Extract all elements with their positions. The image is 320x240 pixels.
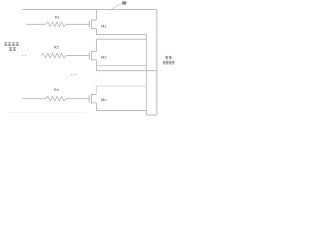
- svg-text:Mn: Mn: [101, 97, 107, 102]
- transistor M2: [89, 51, 96, 61]
- wire M2 source down: [95, 60, 97, 71]
- resistor R2: [41, 53, 66, 58]
- label output signal (Chinese): [163, 56, 175, 64]
- wire Mn source down: [95, 103, 97, 111]
- wire row1 bottom: [96, 34, 146, 36]
- wire row2 top: [96, 38, 146, 40]
- transistor M1: [89, 20, 96, 30]
- wire bottom link: [146, 114, 157, 116]
- wire M1 drain to rail: [95, 10, 97, 21]
- node VDD label: [122, 1, 126, 4]
- wire R2 to M2 gate: [66, 55, 89, 57]
- node ellipsis diagonal: [93, 78, 100, 84]
- resistor R1: [46, 22, 67, 27]
- svg-text:M1: M1: [101, 23, 107, 28]
- label input signal (Chinese): [4, 43, 18, 51]
- svg-text:Rn: Rn: [54, 87, 59, 92]
- wire R1 input: [26, 23, 45, 25]
- wire Rn input: [22, 98, 45, 100]
- wire Rn to Mn gate: [66, 98, 89, 100]
- wire VDD top rail: [22, 9, 157, 11]
- node ellipsis dots row2 input: [22, 55, 26, 56]
- node VDD slash tick: [109, 2, 124, 10]
- wire link row1 to row2: [145, 35, 147, 40]
- wire output tap: [96, 70, 156, 72]
- wire M2 drain: [95, 39, 97, 51]
- wire Mn source bottom: [96, 110, 146, 112]
- svg-text:R2: R2: [54, 45, 60, 50]
- svg-text:M2: M2: [101, 55, 107, 60]
- transistor Mn: [89, 94, 96, 104]
- scan artifact line: [8, 112, 85, 114]
- wire Mn drain up: [95, 86, 97, 95]
- wire R1 to M1 gate: [66, 23, 89, 25]
- svg-text:R1: R1: [55, 15, 61, 20]
- wire chain vertical bus: [145, 35, 147, 115]
- wire Mn drain link: [96, 85, 146, 87]
- resistor Rn: [46, 96, 67, 101]
- node ellipsis continuation: [71, 74, 77, 75]
- wire M2 source chain link: [96, 64, 146, 66]
- wire right bus: [156, 10, 158, 115]
- wire M1 source down: [95, 29, 97, 35]
